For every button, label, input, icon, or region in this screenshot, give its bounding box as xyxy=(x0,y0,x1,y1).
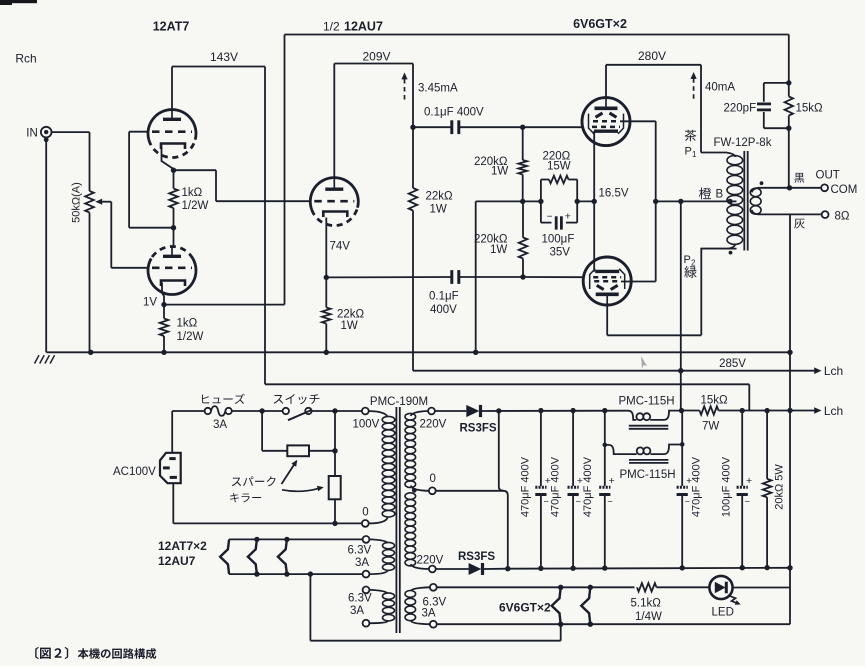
svg-text:100V: 100V xyxy=(353,419,380,431)
svg-text:16.5V: 16.5V xyxy=(599,188,629,200)
svg-text:15kΩ: 15kΩ xyxy=(796,103,824,115)
svg-text:470μF 400V: 470μF 400V xyxy=(550,456,562,517)
svg-text:400V: 400V xyxy=(430,304,457,316)
svg-text:74V: 74V xyxy=(330,241,351,253)
svg-text:0: 0 xyxy=(430,473,436,485)
svg-text:−: − xyxy=(607,497,612,507)
svg-text:3A: 3A xyxy=(355,557,369,569)
svg-text:PMC-115H: PMC-115H xyxy=(619,396,675,408)
svg-text:280V: 280V xyxy=(638,49,666,63)
svg-text:7W: 7W xyxy=(702,421,719,433)
svg-text:12AU7: 12AU7 xyxy=(158,554,196,568)
svg-text:35V: 35V xyxy=(550,247,571,259)
svg-text:220pF: 220pF xyxy=(724,103,757,115)
svg-text:3.45mA: 3.45mA xyxy=(418,83,458,95)
svg-text:COM: COM xyxy=(831,184,858,196)
svg-text:1W: 1W xyxy=(490,244,507,256)
svg-text:1kΩ: 1kΩ xyxy=(177,318,198,330)
svg-text:100μF 400V: 100μF 400V xyxy=(720,456,732,517)
svg-text:6V6GT×2: 6V6GT×2 xyxy=(573,17,627,31)
svg-text:1: 1 xyxy=(692,150,697,159)
svg-text:2: 2 xyxy=(691,259,696,268)
svg-text:470μF 400V: 470μF 400V xyxy=(582,456,594,517)
svg-text:100μF: 100μF xyxy=(542,234,575,246)
svg-text:470μF 400V: 470μF 400V xyxy=(519,456,531,517)
svg-text:6.3V: 6.3V xyxy=(348,545,372,557)
svg-text:−: − xyxy=(685,497,690,507)
svg-text:OUT: OUT xyxy=(816,170,840,182)
svg-text:1/2: 1/2 xyxy=(323,20,340,34)
svg-text:0: 0 xyxy=(362,507,368,519)
svg-text:IN: IN xyxy=(26,128,38,140)
svg-text:6.3V: 6.3V xyxy=(348,593,372,605)
svg-text:RS3FS: RS3FS xyxy=(460,423,497,435)
svg-text:−: − xyxy=(576,497,581,507)
svg-text:AC100V: AC100V xyxy=(113,466,156,478)
svg-text:−: − xyxy=(745,497,750,507)
svg-text:220V: 220V xyxy=(420,419,447,431)
svg-text:−: − xyxy=(547,212,553,223)
svg-text:+: + xyxy=(609,475,615,487)
svg-text:1/2W: 1/2W xyxy=(177,331,204,343)
svg-text:22kΩ: 22kΩ xyxy=(426,191,454,203)
svg-text:Lch: Lch xyxy=(824,404,843,418)
svg-text:P: P xyxy=(684,254,691,266)
svg-text:1W: 1W xyxy=(491,166,508,178)
svg-text:1/2W: 1/2W xyxy=(182,200,209,212)
svg-text:FW-12P-8k: FW-12P-8k xyxy=(714,137,772,149)
svg-text:1W: 1W xyxy=(341,320,358,332)
svg-text:209V: 209V xyxy=(362,50,390,64)
svg-text:1/4W: 1/4W xyxy=(635,611,662,623)
svg-text:15kΩ: 15kΩ xyxy=(701,395,729,407)
svg-text:1W: 1W xyxy=(430,204,447,216)
svg-text:LED: LED xyxy=(712,607,734,619)
svg-text:3A: 3A xyxy=(422,608,436,620)
svg-text:8Ω: 8Ω xyxy=(835,211,850,223)
svg-text:20kΩ 5W: 20kΩ 5W xyxy=(774,464,786,510)
svg-text:+: + xyxy=(565,211,571,223)
svg-text:22kΩ: 22kΩ xyxy=(337,309,365,321)
svg-text:6V6GT×2: 6V6GT×2 xyxy=(499,601,551,615)
svg-text:Rch: Rch xyxy=(15,52,36,66)
svg-text:50kΩ(A): 50kΩ(A) xyxy=(71,182,83,223)
svg-text:220V: 220V xyxy=(417,555,444,567)
svg-text:15W: 15W xyxy=(547,161,571,173)
svg-text:1V: 1V xyxy=(143,297,157,309)
svg-text:Lch: Lch xyxy=(824,364,843,378)
svg-text:12AT7: 12AT7 xyxy=(153,20,190,34)
svg-text:143V: 143V xyxy=(210,50,238,64)
svg-text:B: B xyxy=(716,189,724,201)
svg-text:12AT7×2: 12AT7×2 xyxy=(158,539,207,553)
svg-text:PMC-115H: PMC-115H xyxy=(620,469,676,481)
svg-text:285V: 285V xyxy=(719,358,746,370)
svg-text:PMC-190M: PMC-190M xyxy=(370,396,428,408)
svg-text:1kΩ: 1kΩ xyxy=(182,187,203,199)
svg-text:RS3FS: RS3FS xyxy=(458,551,495,563)
svg-text:40mA: 40mA xyxy=(705,82,735,94)
svg-text:3A: 3A xyxy=(350,605,364,617)
svg-text:0.1μF: 0.1μF xyxy=(429,291,459,303)
svg-text:3A: 3A xyxy=(213,419,227,431)
svg-text:P: P xyxy=(685,146,692,158)
svg-text:−: − xyxy=(543,497,548,507)
svg-text:5.1kΩ: 5.1kΩ xyxy=(631,598,662,610)
svg-text:+: + xyxy=(746,475,752,487)
svg-text:470μF 400V: 470μF 400V xyxy=(691,456,703,517)
svg-text:12AU7: 12AU7 xyxy=(344,20,383,34)
svg-text:0.1μF 400V: 0.1μF 400V xyxy=(424,107,484,119)
